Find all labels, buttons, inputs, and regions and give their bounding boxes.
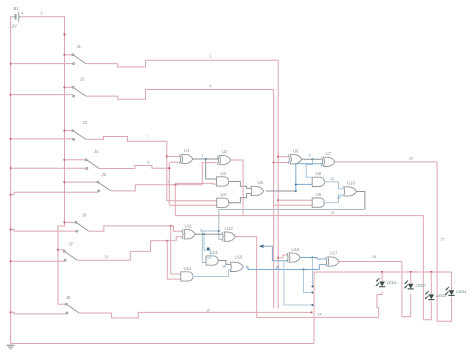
xor U11	[182, 230, 195, 239]
svg-text:22: 22	[409, 156, 413, 160]
and U14	[181, 272, 193, 281]
svg-text:6: 6	[210, 84, 212, 88]
wire rail2 end to J8 top	[65, 303, 68, 305]
svg-text:25: 25	[276, 265, 280, 269]
wire blue down from U16 in2 area	[284, 261, 313, 305]
wire A3 to U14 in1	[171, 273, 181, 275]
junction B1 arrives	[168, 167, 170, 169]
junction A2 tap U9	[277, 199, 279, 201]
junction carry1-U8	[295, 184, 297, 186]
wire J2 output to x274 vertical	[86, 90, 274, 100]
wire A2 vertical x278.2	[277, 60, 279, 308]
wire carry1 to U8 in2	[296, 183, 313, 185]
wire rail1 to J8 bottom	[11, 312, 67, 314]
and U4	[217, 198, 229, 207]
xor U2	[218, 155, 231, 164]
wire A3 to U11 in1	[171, 226, 182, 231]
wire A1 to U4 in1	[167, 200, 217, 202]
junction rail1-J5	[10, 194, 12, 196]
junction blue end y305	[311, 304, 313, 306]
wire U14 out to U15 in2	[192, 270, 230, 277]
wire J3 output	[86, 137, 167, 142]
wire B2 to U6 in2	[274, 162, 289, 164]
wire rail1 to J5 bottom	[11, 192, 98, 194]
junction carry1 (blue)	[295, 190, 297, 192]
junction rail2-J3	[63, 130, 65, 132]
wire carry3 up to U17 in2	[319, 265, 325, 270]
junction J8 wire end	[311, 311, 313, 313]
and U13	[206, 256, 218, 265]
junction rail1-J3	[10, 138, 12, 140]
wire A2 to U9 in1	[278, 199, 312, 201]
wire U4 out to U5 in2	[228, 194, 251, 203]
svg-text:U10: U10	[347, 181, 355, 186]
wire rail2 (battery plus, second vertical)	[22, 17, 67, 304]
junction rail1-J6	[10, 228, 12, 230]
led LED3	[425, 291, 435, 300]
xor U16	[287, 253, 300, 262]
battery B1	[13, 12, 23, 22]
arrow blue net marker	[259, 245, 264, 248]
wire U16 out down	[312, 258, 314, 287]
junction bus-LED2	[410, 271, 412, 273]
wire A2 to U6 in1	[278, 156, 288, 158]
svg-text:5: 5	[41, 12, 43, 16]
or U5	[251, 186, 264, 195]
xor U12	[222, 232, 235, 241]
xor U6	[289, 155, 302, 164]
wire carry2 branch to U13 in2	[202, 231, 219, 263]
wire rail2 to J6 top	[65, 221, 76, 223]
svg-text:LED2: LED2	[416, 282, 427, 287]
svg-text:B1: B1	[14, 6, 20, 11]
wire U6 out down to U8 in1	[306, 159, 312, 177]
svg-text:11: 11	[331, 177, 335, 181]
wire sum3 staircase to LED1 cathode	[377, 292, 382, 318]
svg-text:U1: U1	[184, 148, 190, 153]
or U10	[344, 187, 357, 196]
wire rail1 to J6 bottom	[11, 230, 76, 232]
wire B2 to U9 in2	[274, 204, 313, 206]
svg-text:7: 7	[146, 135, 148, 139]
svg-text:U5: U5	[258, 180, 264, 185]
svg-text:U6: U6	[293, 148, 299, 153]
wire bus to LED2 anode	[410, 272, 412, 284]
wire J4 output	[99, 166, 169, 169]
junction rail2-J1	[63, 54, 65, 56]
junction bus-LED1	[381, 271, 383, 273]
junction rail2-J6	[63, 221, 65, 223]
wire sum3 horizontal to LED1	[257, 316, 379, 318]
junction J5 net tap	[174, 184, 176, 186]
junction U16 in1 tap	[277, 257, 279, 259]
wire U7 out (sum2) long	[335, 161, 437, 163]
wire carry2 horizontal y209.5	[219, 209, 365, 211]
junction rail1-J4	[10, 167, 12, 169]
junction blue end y286.5	[312, 286, 314, 288]
wire A3 vertical x170.7	[170, 226, 172, 274]
wire U12 out (sum3) down	[235, 237, 257, 318]
wire sum2 down to LED4 cathode	[437, 162, 451, 321]
xor U17	[326, 257, 339, 266]
wire U2 out (sum1) down	[231, 160, 243, 216]
led LED1	[376, 278, 386, 287]
junction carry2 branch	[218, 230, 220, 232]
or U15	[230, 262, 243, 271]
wire carry2 down to U12 in2	[219, 210, 222, 240]
led LED4	[445, 287, 455, 296]
svg-text:U14: U14	[184, 266, 192, 271]
svg-text:12: 12	[337, 195, 341, 199]
wire B3 to U14 in2	[167, 278, 181, 280]
wire U8 out to U10 in1	[325, 182, 344, 189]
led LED2	[404, 280, 414, 289]
switch J8	[65, 303, 79, 314]
and U8	[312, 177, 324, 186]
wire U10 out (carry2)	[357, 191, 365, 209]
svg-text:J3: J3	[83, 120, 88, 125]
junction rail2-J4	[63, 159, 65, 161]
wire bus to LED1 anode	[381, 272, 383, 282]
svg-text:24: 24	[318, 313, 322, 317]
wire B1 to U4 in2	[169, 204, 216, 206]
svg-text:8: 8	[148, 161, 150, 165]
wire sum1 horizontal y215.6	[175, 215, 423, 217]
svg-text:J2: J2	[80, 77, 85, 82]
wire B2 vertical x273.6	[273, 90, 275, 309]
wire sum4 down to LED2 cathode	[402, 262, 411, 317]
xor U7	[322, 157, 335, 166]
wire J5 output (carry-in)	[111, 185, 203, 191]
wire LED top bus	[314, 271, 452, 273]
switch J7	[64, 251, 78, 262]
junction rail2-J5	[63, 181, 65, 183]
wire B3 to U11 in2	[167, 237, 182, 241]
svg-text:27: 27	[441, 238, 445, 242]
wire U6 out to U7 in1	[302, 158, 322, 160]
wire J8 output long	[79, 312, 311, 318]
wire J5 up to U2 in2	[202, 163, 217, 185]
junction B2 tap U6	[273, 161, 275, 163]
svg-text:J1: J1	[77, 44, 82, 49]
svg-text:J4: J4	[94, 149, 99, 154]
wire U1 out to U2 in1	[193, 158, 218, 159]
wire U11 out down to U13 in1	[204, 234, 210, 258]
junction carry3 branch	[303, 269, 305, 271]
wire U16 out to U17 in1	[300, 258, 326, 259]
wire rail1 to J2 bottom	[11, 94, 73, 96]
wire J1 output to x278 vertical	[86, 60, 278, 67]
wire U9 out to U10 in2	[323, 195, 344, 203]
junction rail2-J2	[63, 86, 65, 88]
wire rail2 to J5 top	[65, 181, 98, 183]
wire U3 out to U5 in1	[229, 181, 251, 188]
junction rail2-J7	[57, 249, 59, 251]
svg-text:U11: U11	[185, 224, 193, 229]
wire U11 out to U12 in1	[195, 233, 222, 235]
wire U13 out to U15 in1	[219, 261, 231, 265]
and U3	[217, 177, 229, 186]
junction rail2 top	[63, 33, 65, 35]
svg-text:J5: J5	[102, 172, 107, 177]
svg-text:J6: J6	[82, 213, 87, 218]
wire J7 output	[77, 241, 167, 260]
svg-text:19: 19	[206, 308, 210, 312]
wire blue stub to U16 in2	[263, 246, 288, 261]
wire rail1 to J1 bottom	[11, 63, 73, 65]
wire J5 branch down to y215.6	[174, 185, 176, 216]
junction rail1-J7	[10, 260, 12, 262]
wire tap to U16 in1	[278, 255, 287, 258]
wire J6 output	[89, 226, 171, 231]
junction U6 out (blue)	[312, 158, 314, 160]
wire J5 tap to U3 in2	[175, 183, 216, 184]
wire ground riser	[313, 272, 315, 344]
svg-text:U2: U2	[222, 149, 228, 154]
wire rail1 to J3 bottom	[11, 138, 73, 140]
junction B3 (J7 net)	[166, 240, 168, 242]
svg-text:2: 2	[309, 154, 311, 158]
svg-text:LED1: LED1	[387, 280, 397, 285]
wire A1 vertical x166.8	[166, 141, 168, 201]
svg-text:J7: J7	[69, 242, 74, 247]
svg-text:U16: U16	[292, 247, 300, 252]
switch J3	[72, 130, 86, 141]
svg-text:1: 1	[202, 153, 204, 157]
svg-text:U12: U12	[225, 226, 233, 231]
svg-text:LED4: LED4	[456, 289, 467, 294]
svg-text:LED3: LED3	[436, 293, 447, 298]
svg-text:U7: U7	[326, 151, 332, 156]
wire B3 vertical x167.3	[166, 241, 168, 279]
wire U5 out (carry1)	[266, 190, 296, 192]
junction A3 (J6 net)	[170, 225, 172, 227]
wire rail2 to J4 top	[65, 159, 86, 161]
junction bus-LED3	[430, 271, 432, 273]
svg-text:U4: U4	[221, 192, 227, 197]
junction rail1-J1	[10, 63, 12, 65]
ground	[7, 345, 15, 349]
wire rail2 to J1 top	[65, 54, 73, 56]
wire carry3 down branch	[304, 270, 313, 293]
wire A1 to U1 in1	[167, 155, 180, 157]
wire rail1 (battery minus, left vertical)	[11, 17, 14, 344]
junction A2 tap U6	[277, 156, 279, 158]
wire rail2 to J2 top	[65, 86, 73, 88]
svg-text:10: 10	[105, 255, 109, 259]
and U9	[312, 198, 324, 207]
wire rail1 to J4 bottom	[11, 167, 87, 169]
svg-text:U15: U15	[235, 254, 243, 259]
junction rail1-J2	[10, 94, 12, 96]
svg-text:U8: U8	[316, 171, 322, 176]
svg-text:3: 3	[200, 229, 202, 233]
switch J5	[97, 181, 111, 192]
svg-text:13: 13	[222, 265, 226, 269]
junction blue end y292.5	[311, 292, 313, 294]
switch J6	[75, 222, 89, 233]
wire rail2 to J3 top	[65, 130, 73, 132]
svg-text:26: 26	[372, 255, 376, 259]
svg-text:J8: J8	[66, 295, 71, 300]
junction rail1-J8	[10, 311, 12, 313]
svg-text:1: 1	[210, 55, 212, 59]
switch J2	[72, 86, 86, 97]
junction A1 tap U1	[166, 155, 168, 157]
wire U1 out down to U3 in1	[206, 159, 217, 179]
junction U1 out (blue)	[205, 158, 207, 160]
wire sum1 down to LED3 cathode	[423, 216, 431, 320]
wire U17 out (sum4)	[339, 261, 402, 263]
junction U16 out (blue)	[312, 257, 314, 259]
wire rail2 to J7 top	[58, 249, 64, 251]
wire bus to LED4 anode	[451, 272, 453, 290]
svg-text:U3: U3	[221, 171, 227, 176]
xor U1	[180, 154, 193, 163]
wire U15 out (carry3)	[245, 267, 319, 270]
wire bus to LED3 anode	[430, 272, 432, 294]
svg-text:U17: U17	[330, 251, 338, 256]
wire ground rail bottom	[11, 343, 314, 345]
junction U11 out (blue)	[203, 233, 205, 235]
switch J4	[85, 159, 99, 170]
wire rail1 to J7 bottom	[11, 260, 65, 262]
svg-text:23: 23	[331, 211, 335, 215]
junction carry2-U13 cross	[207, 248, 210, 251]
wire B1 vertical x169.3	[168, 162, 170, 205]
wire carry1 up to U7 in2	[296, 164, 322, 191]
wire B1 to U1 in2	[169, 161, 179, 163]
switch J1	[72, 54, 86, 65]
svg-text:U9: U9	[316, 192, 322, 197]
